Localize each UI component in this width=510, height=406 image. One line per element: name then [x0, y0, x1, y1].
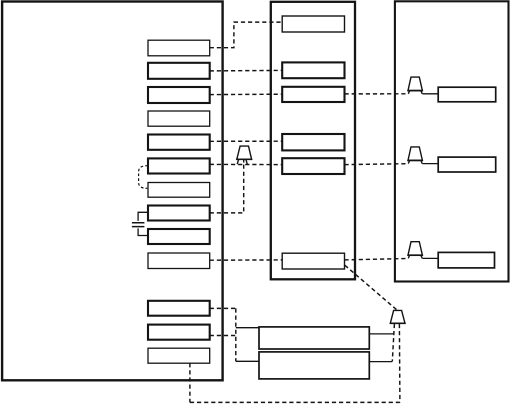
block L9 [148, 229, 210, 244]
wire solid: B2 to sounder S2 [369, 361, 392, 363]
wire dashed net N12: L11 stub [210, 307, 236, 309]
wire dashed net N5: L5 to M4 [210, 140, 283, 142]
block L5 [148, 135, 210, 150]
wire dashed net N18: L13 down to bottom bus [189, 363, 191, 402]
wire solid: sounder S4 to block R2 [422, 163, 438, 165]
block L3 [148, 87, 210, 103]
enclosure box U1 (left panel) [2, 2, 223, 381]
block M2 [282, 62, 344, 78]
wire dashed net N2: L2 to M2 [210, 69, 283, 72]
wire dashed net N11: M6 diagonal to sounder S2 [345, 265, 397, 310]
sounder S3 (right panel top) [407, 77, 423, 94]
block L10 [148, 253, 210, 269]
sounder S5 (right panel bottom) [407, 242, 423, 259]
wire dashed bracket: L6 to L7 [139, 166, 148, 189]
wire dashed net N14: L12 stub [210, 335, 236, 337]
sounder S2 (bottom) [390, 310, 406, 323]
sounder S4 (right panel middle) [407, 147, 423, 164]
wire dashed net N4: M3 to sounder S3 [345, 93, 408, 95]
enclosure box U3 (right panel) [395, 1, 509, 281]
block M5 [282, 158, 344, 174]
wire dashed net N13: vertical bus [235, 308, 237, 361]
wire solid: capacitor C1 to L9 [138, 228, 148, 235]
wire dashed net N15: sounder S2 left leg down [392, 324, 394, 362]
wire solid: L8 to capacitor C1 [138, 212, 148, 221]
block L6 [148, 158, 210, 173]
block M4 [282, 134, 344, 150]
block L4 [148, 111, 210, 126]
block R2 [438, 157, 496, 172]
block L8 [148, 206, 210, 221]
wire dashed net N1: L1 to M1 [210, 22, 283, 48]
block R1 [438, 87, 496, 102]
block L7 [148, 183, 210, 198]
block L1 [148, 40, 210, 56]
capacitor C1 [132, 223, 145, 227]
sounder S1 (between panels) [236, 146, 252, 164]
block L11 [148, 301, 210, 316]
wire solid: sounder S5 to block R3 [422, 257, 438, 259]
block M3 [282, 87, 344, 102]
block R3 [438, 252, 494, 268]
block L13 [148, 348, 210, 363]
block M1 [282, 16, 344, 32]
wire solid: bus to block B2 [236, 360, 259, 362]
block L2 [148, 63, 210, 79]
block B1 (bottom device upper) [259, 327, 369, 349]
block M6 [282, 253, 344, 269]
wire dashed net N16: sounder S2 right leg to bottom bus [398, 324, 401, 403]
wire solid: B1 to sounder S2 [369, 333, 393, 335]
wire dashed net N17: bottom horizontal bus [190, 401, 400, 403]
enclosure box U2 (middle panel) [271, 2, 355, 280]
wire dashed net N6: L6 to M5 [210, 163, 283, 165]
wire dashed net N7: M5 to sounder S4 [345, 163, 408, 166]
wire dashed net N8: L8 up to sounder S1 [210, 163, 244, 213]
wire dashed net N9: L10 to M6 [210, 259, 283, 261]
block B2 (bottom device lower) [259, 352, 369, 379]
wire solid: sounder S3 to block R1 [422, 93, 438, 95]
wire dashed net N3: L3 to M3 [210, 93, 283, 95]
wire solid: bus to block B1 [236, 327, 259, 329]
wire dashed net N10: M6 to sounder S5 [345, 259, 408, 260]
block L12 [148, 325, 210, 340]
